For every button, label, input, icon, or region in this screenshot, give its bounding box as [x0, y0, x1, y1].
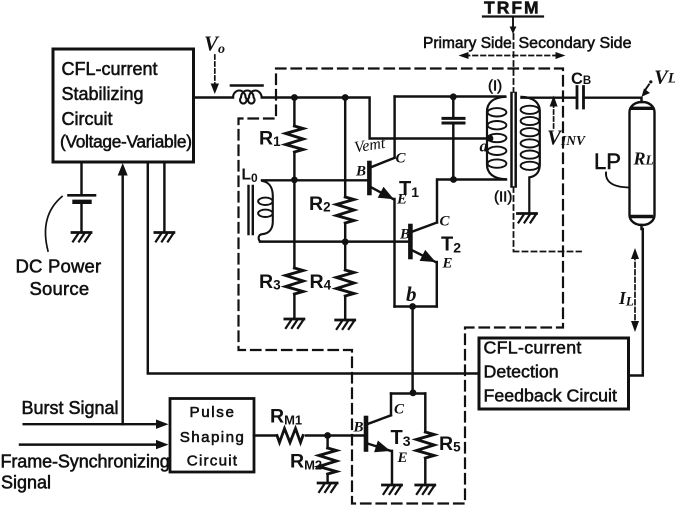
svg-text:CFL-current: CFL-current	[484, 338, 582, 358]
svg-text:Shaping: Shaping	[180, 429, 246, 446]
lamp electrodes	[632, 108, 652, 216]
svg-text:R1: R1	[259, 128, 281, 150]
wire: lamp bottom to detection box	[629, 225, 643, 376]
node b junction	[409, 303, 416, 310]
svg-text:T3: T3	[391, 427, 411, 449]
wire: bus choke to corner, down, right to tap a	[262, 98, 490, 139]
wire: secondary top to CB	[522, 96, 577, 98]
transformer core	[512, 93, 516, 187]
svg-text:CFL-current: CFL-current	[62, 59, 158, 79]
svg-text:Primary Side: Primary Side	[423, 35, 512, 52]
inductor L0 winding	[259, 181, 273, 241]
svg-text:B: B	[399, 227, 410, 243]
svg-text:Vemt: Vemt	[353, 135, 387, 157]
svg-text:DC Power: DC Power	[16, 256, 102, 277]
wire: T3 collector top	[391, 392, 425, 394]
svg-text:E: E	[397, 450, 408, 466]
svg-text:Circuit: Circuit	[187, 452, 238, 469]
wire: L0 bottom / T2 base line	[260, 240, 408, 242]
node a tap junction	[487, 135, 494, 142]
svg-text:RL: RL	[633, 149, 654, 169]
inductor L0 core	[249, 186, 253, 234]
svg-text:RM2: RM2	[290, 451, 322, 473]
svg-text:B: B	[353, 420, 364, 436]
svg-text:IL: IL	[618, 288, 634, 309]
resistor RM1	[277, 429, 303, 443]
ground under R4	[336, 320, 355, 329]
resistor R2	[336, 197, 354, 223]
svg-text:C: C	[396, 151, 407, 167]
ground under R5	[416, 485, 435, 494]
svg-text:VINV: VINV	[547, 126, 586, 150]
ground under T3 emitter	[383, 485, 402, 494]
transistor Q T2	[410, 180, 453, 307]
wire: R2 column	[344, 98, 346, 319]
svg-text:Frame-Synchronizing: Frame-Synchronizing	[1, 452, 170, 472]
svg-text:RM1: RM1	[270, 406, 302, 428]
junction R2/R4/T2 base	[342, 238, 349, 245]
svg-text:Circuit: Circuit	[62, 109, 113, 129]
svg-text:Stabilizing: Stabilizing	[62, 84, 144, 104]
wire: RM2 drop	[326, 436, 328, 482]
dashed arrow V0	[214, 55, 216, 87]
TRFM underline and arrow	[483, 15, 543, 17]
ground under battery	[72, 233, 91, 242]
battery DC source	[69, 194, 96, 197]
transformer primary winding	[487, 97, 506, 179]
leader DC Power Source	[45, 197, 62, 252]
wire: bottom rail node b	[395, 307, 437, 393]
wire: L0 top to T1 base line	[262, 179, 367, 181]
wire: third drop to ground	[163, 162, 165, 231]
svg-text:Signal: Signal	[1, 473, 51, 493]
junction bus/R2	[342, 94, 349, 101]
junction R1/R3/L0 top/T1 base	[291, 177, 298, 184]
capacitor resonant plates	[443, 118, 464, 123]
wire: primary bottom	[454, 178, 507, 180]
wire: bus from stabilizing box to filter choke	[194, 96, 234, 98]
ground under RM2	[318, 483, 337, 492]
dashed boundary of inverter block	[239, 69, 564, 504]
svg-text:a: a	[480, 137, 489, 156]
svg-text:B: B	[355, 164, 366, 180]
wire: Frame-Synchronizing line	[20, 443, 161, 445]
resistor R3	[286, 268, 304, 294]
box: CFL-current Detection Feedback Circuit	[479, 338, 629, 409]
wire: feedback line to stabilizing circuit	[148, 162, 479, 374]
transistor Q T3	[366, 394, 392, 484]
arrow VL	[646, 85, 650, 90]
svg-text:R3: R3	[259, 271, 281, 293]
svg-text:(Voltage-Variable): (Voltage-Variable)	[60, 132, 192, 152]
svg-text:R5: R5	[439, 433, 461, 455]
svg-text:CB: CB	[571, 70, 591, 88]
wire: Burst Signal line	[24, 423, 161, 425]
wire: battery drop	[80, 162, 82, 194]
svg-text:Burst Signal: Burst Signal	[22, 398, 119, 418]
svg-text:Pulse: Pulse	[190, 404, 236, 421]
junction bus/R1	[291, 94, 298, 101]
resistor R1	[286, 126, 304, 152]
svg-text:Feedback Circuit: Feedback Circuit	[484, 386, 617, 406]
svg-text:C: C	[394, 402, 405, 418]
wire: bus right segment to transformer primary top	[395, 95, 505, 97]
junction RM1/RM2/T3 base	[324, 432, 331, 439]
inductor filter choke	[233, 90, 262, 103]
svg-text:Secondary Side: Secondary Side	[519, 35, 632, 52]
svg-text:R2: R2	[309, 193, 331, 215]
wire: R1 column	[293, 98, 295, 318]
dashed divider primary/secondary	[514, 34, 582, 252]
svg-text:L0: L0	[242, 167, 258, 186]
choke core bar	[231, 84, 263, 87]
wire: CB to lamp	[584, 98, 642, 102]
junction T3 collector/R5	[410, 389, 417, 396]
svg-text:Source: Source	[30, 278, 90, 299]
svg-text:E: E	[396, 192, 407, 208]
wire: pulse box to RM1	[254, 434, 276, 436]
junction capacitor/primary bottom/T2 collector	[450, 176, 457, 183]
resistor RM2	[319, 448, 337, 474]
wire: T1 collector riser	[393, 97, 395, 158]
leader LP	[606, 173, 630, 188]
resistor R5	[417, 432, 435, 458]
capacitor resonant top wire	[452, 97, 454, 117]
svg-text:TRFM: TRFM	[484, 0, 541, 18]
lamp LP outline	[630, 102, 655, 225]
svg-text:E: E	[442, 256, 453, 272]
svg-text:Detection: Detection	[484, 362, 559, 382]
wire: RM1 to T3 base	[306, 434, 364, 436]
box: CFL-current Stabilizing Circuit	[53, 49, 194, 162]
wire: R5 drop	[424, 394, 426, 484]
dashed double arrow primary-secondary span	[465, 55, 559, 57]
svg-text:.VL: .VL	[649, 67, 675, 89]
ground right of battery	[155, 233, 174, 242]
wire: burst control line up into box	[121, 173, 123, 424]
capacitor CB plates	[577, 87, 584, 109]
svg-text:C: C	[440, 214, 451, 230]
svg-text:(I): (I)	[488, 78, 502, 95]
junction bus/resonant capacitor	[450, 93, 457, 100]
resistor R4	[336, 270, 354, 296]
svg-text:T2: T2	[441, 234, 461, 256]
transformer secondary winding	[522, 97, 540, 212]
ground under secondary	[518, 214, 537, 223]
svg-text:LP: LP	[594, 149, 621, 174]
transistor Q T1	[369, 158, 394, 307]
svg-text:b: b	[406, 282, 417, 306]
svg-text:(II): (II)	[494, 189, 512, 206]
dashed arrow VINV	[553, 103, 555, 130]
ground under R3	[285, 319, 304, 328]
arrow up into stabilizing box	[118, 163, 128, 176]
capacitor resonant bottom wire	[452, 125, 454, 180]
dashed arrow IL	[634, 255, 636, 325]
svg-text:Vo: Vo	[204, 32, 225, 58]
svg-text:R4: R4	[310, 271, 332, 293]
box: Pulse Shaping Circuit	[170, 399, 254, 473]
